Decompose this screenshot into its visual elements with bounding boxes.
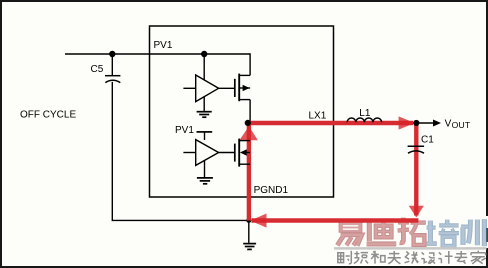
capacitor C1 (plates drawn over red path) (408, 146, 425, 153)
node: bottom ground junction dot (246, 218, 251, 223)
transistor Q1 upper MOSFET (235, 74, 250, 102)
op-amp U2 upper gate driver (183, 75, 234, 102)
wire: Q1 source to LX1 node (249, 100, 251, 123)
red arrowhead up (239, 126, 258, 140)
node: driver supply junction dot (201, 51, 207, 57)
transistor Q1 body arrow (243, 85, 250, 92)
IC box U1 (150, 26, 334, 197)
watermark tagline: 天 (388, 251, 401, 264)
red current path: down through C1 (right segment) (414, 123, 418, 216)
transistor Q2 body arrow (240, 149, 247, 156)
ground (main, bottom) (243, 220, 256, 249)
node: VOUT junction dot (413, 120, 419, 126)
watermark underline (334, 247, 487, 250)
svg-text:C5: C5 (91, 64, 104, 75)
watermark tagline: 和 (371, 251, 385, 264)
watermark tagline: 频 (354, 251, 368, 263)
svg-text:PGND1: PGND1 (254, 185, 289, 196)
watermark cropped glyph fragment at right edge (486, 228, 488, 242)
capacitor C5 (105, 57, 120, 83)
red arrowhead left (250, 214, 266, 228)
watermark tagline: 射 (338, 251, 352, 264)
wire: LX1 node through Q2 to ground (under red path) (249, 123, 251, 220)
svg-text:OUT: OUT (452, 120, 471, 130)
red arrowhead right (399, 116, 415, 129)
op-amp U3 lower gate driver (183, 140, 234, 166)
svg-text:PV1: PV1 (175, 125, 194, 136)
wire: upper MOSFET drain riser (249, 53, 251, 75)
red arrowhead down (409, 206, 424, 218)
arrowhead VOUT (433, 120, 441, 127)
watermark logo: 易 (337, 220, 362, 245)
ground (upper driver) (197, 96, 212, 117)
svg-text:OFF CYCLE: OFF CYCLE (20, 110, 76, 121)
red current path: LX1 to output (top segment) (247, 121, 413, 125)
wire: VOUT stub (419, 122, 434, 124)
watermark logo: 拓 (398, 218, 426, 245)
red current path: up through Q2 (left segment) (247, 124, 251, 221)
ground (lower driver) (197, 160, 213, 184)
svg-text:V: V (445, 118, 452, 129)
watermark tagline: 专 (455, 251, 468, 264)
watermark tagline: 计 (438, 251, 452, 264)
wire: top input rail (65, 53, 250, 55)
inductor L1 (347, 118, 381, 122)
watermark white patch over right border (485, 216, 488, 248)
watermark tagline: 设 (421, 252, 435, 263)
red current path: bottom return segment (252, 218, 419, 222)
svg-text:PV1: PV1 (154, 40, 173, 51)
watermark logo: 训 (461, 219, 484, 246)
svg-text:LX1: LX1 (309, 111, 327, 122)
node: LX1 junction dot (245, 120, 251, 126)
watermark tagline: 家 (471, 251, 486, 264)
svg-text:C1: C1 (421, 134, 434, 145)
watermark logo: 迪 (367, 220, 397, 244)
transistor Q2 leads (drawn over red path) (239, 141, 250, 165)
watermark tagline: 线 (405, 251, 419, 263)
wire: junction to upper driver (203, 54, 205, 80)
svg-text:L1: L1 (359, 108, 371, 119)
watermark logo: 培 (427, 220, 459, 246)
transistor Q2 lower MOSFET (235, 139, 239, 167)
node: C5 tap junction dot (109, 51, 115, 57)
wire: C5 to ground rail (112, 82, 249, 221)
power rail bar PV1 (lower driver supply) (197, 132, 213, 140)
